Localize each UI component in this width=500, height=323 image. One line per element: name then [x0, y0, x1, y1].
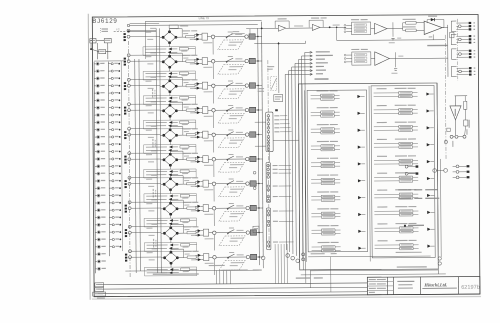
chain line right — [268, 60, 269, 250]
svg-text:62197b: 62197b — [461, 285, 480, 291]
input resistor network RN2 — [352, 52, 371, 65]
bottom label row — [222, 270, 248, 271]
box GND — [99, 49, 106, 53]
pin P10 — [457, 67, 459, 69]
power driver row 8 (bridge Q29-Q32, winding M8) — [128, 199, 263, 227]
connector strip CN4 — [266, 162, 271, 202]
long rail y40.8 — [337, 39, 445, 42]
title block description text — [397, 281, 414, 282]
bus wire A — [135, 59, 136, 273]
input resistor network RN1 — [352, 22, 371, 35]
page bottom edge shadow — [92, 297, 481, 300]
svg-text:FG: FG — [116, 27, 120, 31]
pin P7 — [457, 50, 459, 52]
connector CN1 pins — [94, 62, 106, 270]
U5 below ticks — [432, 34, 434, 39]
connector column CN2 rail — [108, 62, 109, 256]
comparator input resistor R82 — [403, 29, 406, 31]
block bottom rail — [308, 255, 430, 258]
resistor group L6 — [317, 175, 329, 176]
CN75 label — [314, 78, 328, 79]
power driver row 6 (bridge Q21-Q24, winding M6) — [128, 150, 263, 178]
pin P11 — [457, 70, 459, 72]
main vertical bus F — [258, 28, 260, 265]
power net wire 5 — [292, 66, 313, 68]
U1 output net — [286, 27, 313, 29]
resistor group L10 — [318, 242, 330, 243]
pin P6 — [456, 42, 458, 44]
strip drop wires — [274, 244, 276, 283]
bus wire B — [139, 59, 140, 271]
resistor block inner-right box — [371, 86, 435, 258]
capacitor C95 — [464, 120, 468, 126]
power driver row 7 (bridge Q25-Q28, winding M7) — [128, 174, 263, 202]
U5 feedback diode D90 — [442, 27, 444, 29]
resistor group R5 — [395, 155, 407, 156]
block bottom circles — [438, 257, 441, 260]
power net wire 3 — [298, 59, 312, 61]
op-amp U2 — [312, 24, 320, 30]
regulator TR90 (down triangle) — [455, 95, 467, 97]
small box — [447, 128, 450, 131]
title block vertical dividers — [386, 277, 388, 294]
resistor block outer box — [299, 83, 439, 270]
footnote — [404, 225, 406, 227]
power net wire 1 — [305, 51, 312, 53]
vertical net labels — [152, 89, 153, 91]
power net wire 4 — [295, 62, 312, 64]
power driver row 2 (bridge Q5-Q8, winding M2) — [127, 52, 262, 80]
pin P9 — [457, 56, 459, 58]
power driver row 1 (bridge Q1-Q4, winding M1) — [127, 27, 262, 55]
resistor group R10 — [396, 240, 408, 241]
photo-sensor label — [427, 45, 447, 47]
chain line right edge — [444, 35, 447, 159]
pin P5 — [456, 38, 458, 40]
bottom bus line 2 — [98, 287, 367, 289]
op-amp U1 — [278, 25, 285, 31]
board boundary chain line — [129, 41, 131, 277]
CN3 out wire — [273, 139, 299, 141]
power driver row 10 (bridge Q37-Q40, winding M10) — [128, 248, 263, 276]
resistor group L8 — [317, 208, 329, 209]
aux circles — [444, 140, 447, 143]
CN3 top mark — [275, 109, 278, 111]
svg-text:Hitachi,Ltd.: Hitachi,Ltd. — [423, 282, 447, 287]
page left edge shadow — [88, 14, 90, 300]
op-amp U4 — [375, 52, 390, 66]
fan junction circles — [286, 254, 290, 258]
U1 feedback resistor R71 — [274, 21, 276, 28]
connector column CN2 right rail — [121, 61, 122, 251]
bottom bus line 3 — [98, 292, 367, 294]
resistor group L2 — [317, 107, 329, 108]
bottom bus line 1 — [98, 283, 367, 285]
block internal verticals — [302, 84, 303, 270]
resistor group L1 — [317, 90, 329, 91]
wires top-left — [90, 40, 93, 42]
block left edge circles — [302, 253, 305, 256]
right chain line 2 — [456, 19, 458, 81]
lower-right connector pins — [453, 165, 456, 167]
power net wire 6 — [288, 70, 312, 72]
resistor group R1 — [395, 88, 407, 89]
power net wire 2 — [302, 55, 313, 57]
resistor group R8 — [395, 206, 407, 207]
resistance note lines — [398, 189, 411, 190]
row1 terminal riser — [246, 28, 261, 30]
resistor R95 vertical — [464, 101, 467, 109]
connector CN2 pins — [108, 63, 121, 248]
connector strip CN5 — [266, 208, 271, 250]
diode cluster column — [123, 33, 127, 261]
NC note — [102, 28, 108, 29]
op-amp U3 — [375, 23, 387, 34]
top rail wires — [130, 24, 258, 27]
power driver row 9 (bridge Q33-Q36, winding M9) — [128, 223, 263, 251]
junction circles row — [450, 135, 453, 138]
resistor block inner-left box — [307, 90, 368, 252]
comparator U5 — [424, 21, 442, 35]
svg-text:BJ6129: BJ6129 — [92, 18, 117, 25]
resistor group L3 — [317, 124, 329, 125]
resistor group R2 — [395, 105, 407, 106]
power driver row 3 (bridge Q9-Q12, winding M3) — [127, 76, 262, 104]
box DSW — [90, 39, 96, 43]
pin P2 — [456, 25, 458, 27]
box PWB — [104, 38, 111, 42]
comparator input resistor R81 — [403, 22, 406, 24]
title block row lines — [367, 280, 393, 282]
left bus hook — [161, 272, 170, 274]
bus wire C — [156, 28, 158, 272]
photo sensor connector brackets — [451, 21, 456, 31]
resistor group R3 — [395, 122, 407, 123]
bus E terminal circle — [261, 256, 265, 260]
pin P12 — [457, 74, 459, 76]
output spine — [447, 25, 449, 77]
power driver row 5 (bridge Q17-Q20, winding M5) — [128, 125, 263, 153]
pin P1 — [456, 22, 458, 24]
strip side marks — [253, 171, 256, 174]
block bottom drops — [305, 252, 307, 283]
resistor group L9 — [317, 225, 329, 226]
photo interrupter PT1 — [274, 95, 283, 102]
resistor group L4 — [317, 141, 329, 142]
connector circles on chain line — [127, 24, 129, 26]
connector strip CN3 — [266, 112, 273, 152]
power net wire 7 — [285, 73, 312, 75]
U3 output — [387, 28, 403, 30]
drop wires to bus — [215, 270, 217, 283]
resistor group R9 — [395, 223, 407, 224]
title block small texts — [369, 279, 376, 280]
power driver row 4 (bridge Q13-Q16, winding M4) — [127, 101, 262, 129]
connector column CN1 rail — [94, 62, 95, 273]
inter-group box — [450, 32, 454, 38]
resistor group L7 — [317, 191, 329, 192]
U4 output — [389, 57, 395, 59]
resistor group L5 — [317, 158, 329, 159]
resistor group R6 — [395, 172, 407, 173]
feeder wire — [278, 42, 280, 93]
svg-text:LINE 73: LINE 73 — [199, 16, 210, 20]
U2 output net — [320, 26, 346, 28]
resistor group R7 — [395, 189, 407, 190]
main vertical bus E — [262, 22, 264, 256]
border frame — [92, 15, 480, 297]
pin P8 — [457, 53, 459, 55]
mid-right connector pins — [405, 165, 408, 168]
U2 feedback resistor R72 — [308, 20, 310, 27]
sheet page — [88, 11, 482, 300]
bottom-left terminal boxes — [95, 283, 104, 287]
title block outline — [367, 277, 480, 295]
bus wire D — [160, 28, 162, 272]
pin P3 — [456, 28, 458, 30]
resistor group R4 — [395, 138, 407, 139]
pin P4 — [456, 35, 458, 37]
